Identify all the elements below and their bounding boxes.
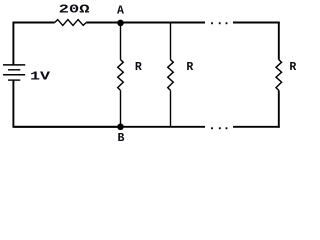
- wire right branch upper: [278, 22, 280, 60]
- wire branch1 lower: [120, 90, 122, 126]
- resistor R2 (vertical zigzag): [168, 60, 174, 91]
- wire top-right segment: [233, 22, 280, 24]
- node B junction dot: [117, 124, 124, 131]
- battery V1 1V: [3, 65, 25, 80]
- svg-text:R: R: [135, 61, 142, 74]
- wire right branch lower: [278, 90, 280, 127]
- svg-text:R: R: [186, 61, 193, 74]
- wire branch1 upper: [120, 23, 122, 60]
- resistor R3 (vertical zigzag): [276, 60, 282, 91]
- svg-text:A: A: [117, 5, 124, 18]
- wire branch2 lower: [170, 90, 172, 126]
- svg-text:1V: 1V: [30, 71, 50, 84]
- svg-text:R: R: [289, 61, 296, 74]
- wire bottom-right segment: [233, 126, 280, 128]
- wire bottom middle segment: [13, 126, 205, 128]
- wire top middle segment: [86, 22, 205, 24]
- wire top-left segment: [13, 23, 54, 65]
- resistor 20ohm (horizontal zigzag): [55, 20, 86, 26]
- resistor R1 (vertical zigzag): [118, 60, 124, 91]
- continuation dots bottom: [211, 127, 227, 129]
- svg-text:B: B: [118, 132, 125, 145]
- wire branch2 upper: [170, 23, 172, 60]
- wire left bottom segment: [13, 80, 120, 127]
- svg-text:20Ω: 20Ω: [59, 3, 90, 16]
- node A junction dot: [117, 20, 124, 27]
- continuation dots top: [211, 22, 227, 24]
